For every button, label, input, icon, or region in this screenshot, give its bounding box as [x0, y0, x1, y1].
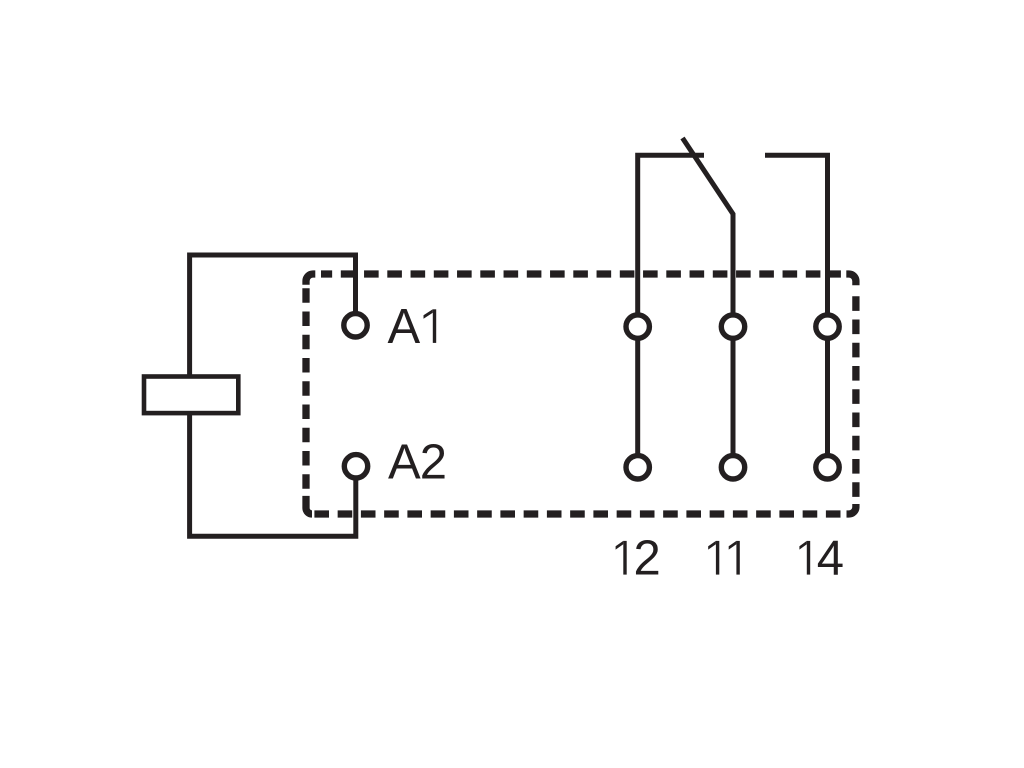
relay body dashed outline: bottom-left corner piece — [306, 496, 312, 514]
label 14: digit 1 — [799, 541, 810, 575]
terminal 12 top — [626, 315, 649, 338]
wire contact 14 with fixed contact bar — [765, 155, 828, 467]
terminal A1 — [344, 314, 367, 337]
label 11: digit 1 (second) — [729, 541, 740, 575]
relay body dashed outline: bottom-right corner piece — [847, 504, 856, 514]
terminal 11 bottom — [721, 456, 744, 479]
relay body dashed outline: bottom edge — [314, 510, 841, 517]
label A1: digit 1 — [424, 309, 437, 343]
terminal A2 — [344, 455, 367, 478]
relay body dashed outline: right edge — [852, 289, 859, 500]
svg-text:A: A — [388, 300, 421, 354]
svg-text:2: 2 — [634, 532, 661, 586]
label 11: digit 1 (first) — [708, 541, 719, 575]
wire contact 11 with switch armature — [683, 138, 734, 467]
svg-text:2: 2 — [420, 436, 447, 490]
coil L1 — [144, 377, 238, 414]
terminal 14 top — [816, 315, 839, 338]
terminal 14 bottom — [816, 456, 839, 479]
svg-text:4: 4 — [817, 532, 844, 586]
terminal 11 top — [721, 315, 744, 338]
label 12: digit 1 — [616, 541, 627, 575]
wire contact 12 with fixed contact bar — [638, 155, 704, 467]
relay body dashed outline: top-right corner piece — [846, 274, 856, 285]
wire coil loop A1-A2 — [190, 255, 356, 536]
svg-text:A: A — [388, 436, 421, 490]
relay body dashed outline: left edge — [302, 288, 309, 496]
relay body dashed outline: top edge — [321, 270, 841, 277]
terminal 12 bottom — [626, 456, 649, 479]
relay body dashed outline: top-left corner piece — [306, 274, 315, 285]
